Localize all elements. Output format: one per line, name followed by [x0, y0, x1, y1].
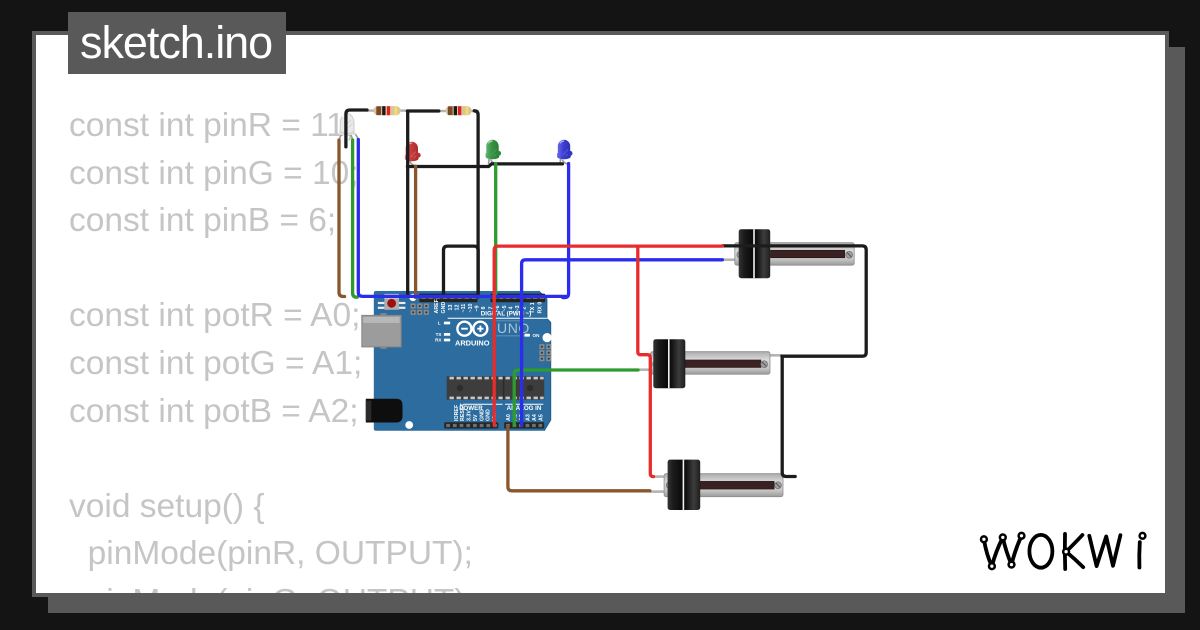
svg-text:RX: RX: [435, 338, 442, 343]
svg-text:4: 4: [508, 307, 514, 310]
svg-text:TX: TX: [436, 332, 443, 337]
svg-text:5V: 5V: [473, 414, 479, 421]
svg-text:ON: ON: [533, 333, 541, 338]
svg-text:GND: GND: [441, 302, 447, 314]
svg-text:~6: ~6: [495, 305, 501, 311]
svg-text:12: 12: [455, 305, 461, 311]
svg-text:~9: ~9: [474, 305, 480, 311]
svg-text:A3: A3: [526, 414, 532, 421]
svg-text:TX 1: TX 1: [530, 302, 536, 313]
svg-text:L: L: [438, 320, 441, 325]
svg-text:A0: A0: [506, 414, 512, 421]
svg-text:A4: A4: [532, 414, 538, 421]
svg-text:~11: ~11: [461, 304, 467, 313]
svg-text:ANALOG IN: ANALOG IN: [507, 405, 542, 412]
svg-text:UNO: UNO: [497, 320, 530, 336]
svg-text:3.3V: 3.3V: [467, 410, 473, 421]
svg-text:13: 13: [448, 305, 454, 311]
svg-text:GND: GND: [486, 409, 492, 421]
svg-text:RX 0: RX 0: [537, 302, 543, 314]
svg-text:~10: ~10: [468, 303, 474, 312]
svg-text:8: 8: [481, 307, 487, 310]
svg-text:A5: A5: [539, 414, 545, 421]
svg-text:AREF: AREF: [434, 298, 440, 313]
svg-text:~5: ~5: [502, 305, 508, 311]
svg-text:ARDUINO: ARDUINO: [455, 338, 490, 347]
svg-text:RESET: RESET: [460, 403, 466, 421]
